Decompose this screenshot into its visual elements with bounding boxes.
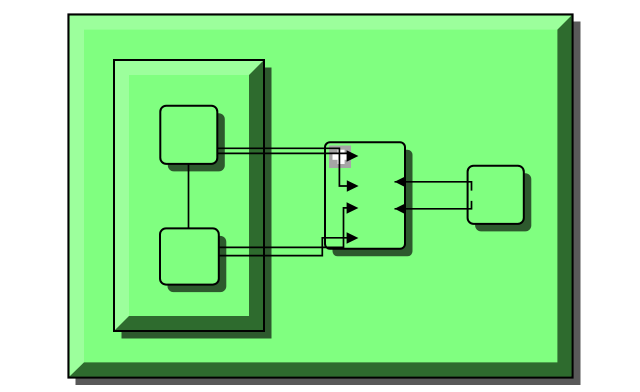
inner panel bevel dark (bottom/right) <box>115 61 263 330</box>
wire right lower with hook <box>395 201 472 209</box>
outer subsystem bevel dark (bottom/right) <box>70 16 572 377</box>
wire bottom-square upper to arrow3 <box>219 208 349 248</box>
arrow 1 <box>347 150 359 162</box>
bottom square block <box>160 228 219 284</box>
top square shadow <box>168 113 225 171</box>
inner panel drop shadow <box>122 68 272 339</box>
inner panel bevel light (top/left) <box>115 61 263 330</box>
wire right upper with hook <box>395 182 472 191</box>
connector line between squares <box>188 164 190 229</box>
right block shadow <box>475 173 531 231</box>
arrow 6 (right side lower) <box>395 203 406 214</box>
inner panel body <box>114 60 264 331</box>
outer subsystem drop shadow <box>76 22 581 386</box>
plus glyph <box>333 150 350 164</box>
wire bottom-square lower to arrow4 <box>219 238 349 256</box>
grey plus badge <box>329 146 351 169</box>
wire top-square lower to arrow1 <box>217 152 350 154</box>
right block body <box>468 166 524 224</box>
outer subsystem bevel light (top/left) <box>70 16 572 377</box>
arrow 2 <box>347 180 359 192</box>
arrow 5 (right side upper) <box>395 176 406 187</box>
bottom square shadow <box>168 236 227 292</box>
wire top-square upper to arrow2 <box>217 148 349 186</box>
outer subsystem body <box>69 15 573 378</box>
middle block shadow <box>333 150 413 256</box>
top square block <box>160 106 217 164</box>
arrow 4 <box>347 232 359 244</box>
middle block body <box>325 142 405 249</box>
arrow 3 <box>347 202 359 214</box>
